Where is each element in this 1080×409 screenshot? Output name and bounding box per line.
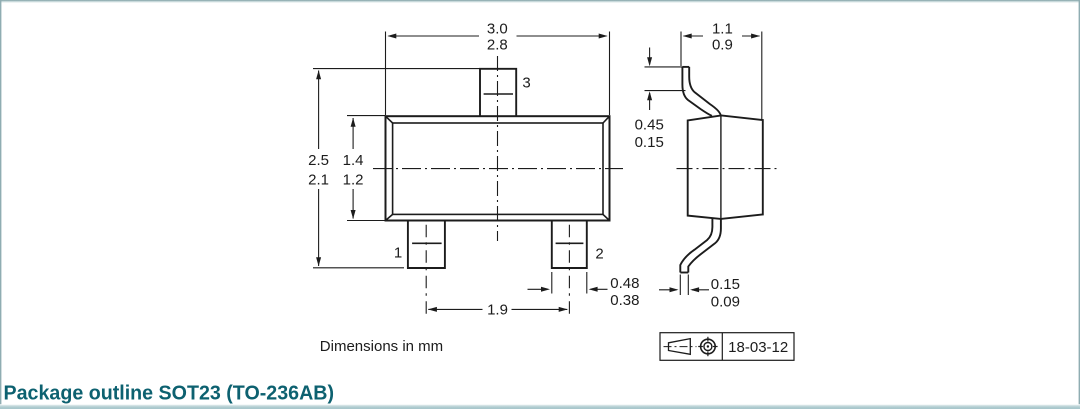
pin 2 centerline (568, 225, 570, 316)
package body side view (688, 115, 763, 218)
svg-text:2.1: 2.1 (308, 171, 329, 188)
right page border (1079, 0, 1080, 409)
svg-text:1.9: 1.9 (487, 302, 508, 319)
svg-text:2: 2 (595, 245, 603, 262)
svg-text:Dimensions in mm: Dimensions in mm (320, 338, 443, 355)
svg-text:3: 3 (522, 75, 530, 92)
bottom lead (side view, gull-wing) (680, 218, 721, 272)
dimension 0.48/0.38 (pin width) (528, 272, 608, 294)
svg-text:0.09: 0.09 (711, 293, 740, 310)
first-angle projection cone symbol (664, 339, 697, 355)
left page border (0, 0, 1, 409)
svg-text:2.8: 2.8 (487, 37, 508, 54)
svg-text:0.45: 0.45 (635, 116, 664, 133)
horizontal centerline through body (top view) (373, 168, 623, 170)
package body top view (inner outline with corner bevels) (386, 116, 610, 220)
bottom teal bar (0, 404, 1080, 409)
svg-text:0.15: 0.15 (635, 134, 664, 151)
dimension 3.0/2.8 (body width, top view) (386, 32, 610, 116)
svg-text:3.0: 3.0 (487, 21, 508, 38)
pin 1 centerline (425, 225, 427, 316)
pin 1 (bottom left) (408, 221, 445, 269)
svg-text:1: 1 (394, 245, 402, 262)
vertical centerline through pin 3 and body (497, 56, 499, 241)
svg-text:1.1: 1.1 (712, 21, 733, 38)
svg-text:1.2: 1.2 (343, 171, 364, 188)
svg-text:0.15: 0.15 (711, 276, 740, 293)
horizontal centerline (side view) (677, 168, 777, 170)
package body top view (outer outline) (386, 116, 610, 220)
dimension 2.5/2.1 (overall height, left) (313, 69, 480, 268)
svg-text:0.48: 0.48 (610, 275, 639, 292)
dimension 1.4/1.2 (body height, left inner) (347, 116, 386, 221)
svg-text:2.5: 2.5 (308, 152, 329, 169)
lead through-line inside body (side view) (720, 115, 722, 219)
svg-text:0.9: 0.9 (712, 37, 733, 54)
top page border (0, 0, 1080, 3)
projection symbol circles (698, 337, 717, 356)
svg-text:18-03-12: 18-03-12 (728, 339, 788, 356)
pin 2 (bottom right) (552, 221, 587, 269)
svg-text:Package outline SOT23 (TO-236A: Package outline SOT23 (TO-236AB) (4, 382, 335, 404)
top lead (side view, gull-wing) (682, 67, 721, 117)
pin 3 (top tab) (480, 69, 516, 116)
svg-text:0.38: 0.38 (610, 292, 639, 309)
dimension 0.15/0.09 (lead thickness, side view) (659, 275, 709, 296)
projection symbol and date box (660, 333, 794, 361)
dimension 1.9 (pin pitch) (428, 308, 567, 310)
svg-text:1.4: 1.4 (343, 152, 364, 169)
dimension 0.45/0.15 (lead standoff, side view) (645, 48, 686, 111)
dimension 1.1/0.9 (side view body width) (681, 32, 762, 120)
